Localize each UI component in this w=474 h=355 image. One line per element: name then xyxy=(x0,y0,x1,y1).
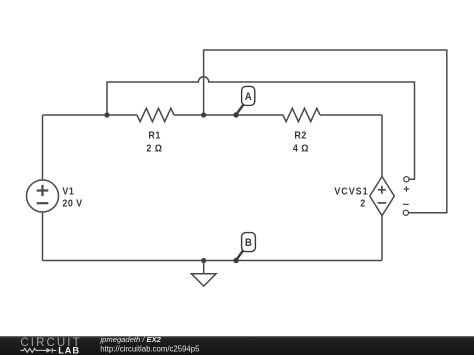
junction node after R1 left (x=107) xyxy=(104,112,109,117)
terminal - (lower sense terminal) xyxy=(403,204,409,215)
svg-text:LAB: LAB xyxy=(58,346,80,355)
junction ground node xyxy=(201,258,206,263)
dependent source VCVS1 (diamond) xyxy=(370,177,395,216)
resistor R2 xyxy=(283,108,320,121)
label R2 4ohm xyxy=(293,130,309,155)
junction node B attach point xyxy=(234,258,239,263)
junction node A attach point xyxy=(234,112,239,117)
node A flag xyxy=(233,86,254,117)
svg-text:jpmegadeth / EX2: jpmegadeth / EX2 xyxy=(100,335,162,344)
label V1 20 V xyxy=(62,186,82,209)
svg-text:2: 2 xyxy=(360,198,365,210)
svg-text:4 Ω: 4 Ω xyxy=(293,143,309,155)
svg-text:R1: R1 xyxy=(148,130,161,142)
svg-text:2 Ω: 2 Ω xyxy=(146,143,162,155)
voltage source V1 xyxy=(27,180,59,212)
wire: top main rail y=115 xyxy=(43,114,383,116)
wire: left branch vertical (V1 column) xyxy=(42,115,44,261)
terminal + (upper sense terminal) xyxy=(404,177,410,192)
label VCVS1 2 xyxy=(334,186,368,210)
label R1 2ohm xyxy=(146,130,162,155)
ground xyxy=(191,261,216,287)
svg-text:V1: V1 xyxy=(62,186,74,198)
footer bar xyxy=(0,336,474,355)
svg-text:B: B xyxy=(245,238,252,250)
svg-text:VCVS1: VCVS1 xyxy=(334,186,368,198)
junction node at hop column (x=203.6) xyxy=(201,112,206,117)
wire: inner sense loop (node after R1 to + terminal) with hop xyxy=(107,77,415,179)
svg-text:http://circuitlab.com/c2594p5: http://circuitlab.com/c2594p5 xyxy=(100,344,200,353)
svg-text:20 V: 20 V xyxy=(62,198,82,210)
node B flag xyxy=(233,233,255,263)
svg-text:A: A xyxy=(245,91,252,103)
wire: bottom rail y=260.5 xyxy=(43,260,383,262)
svg-text:R2: R2 xyxy=(294,130,306,142)
resistor R1 xyxy=(137,108,174,121)
CircuitLab logo: resistor+diode glyph xyxy=(20,348,56,353)
wire: outer loop (node A column to - terminal) xyxy=(204,50,447,213)
wire: VCVS right branch vertical xyxy=(381,115,383,261)
